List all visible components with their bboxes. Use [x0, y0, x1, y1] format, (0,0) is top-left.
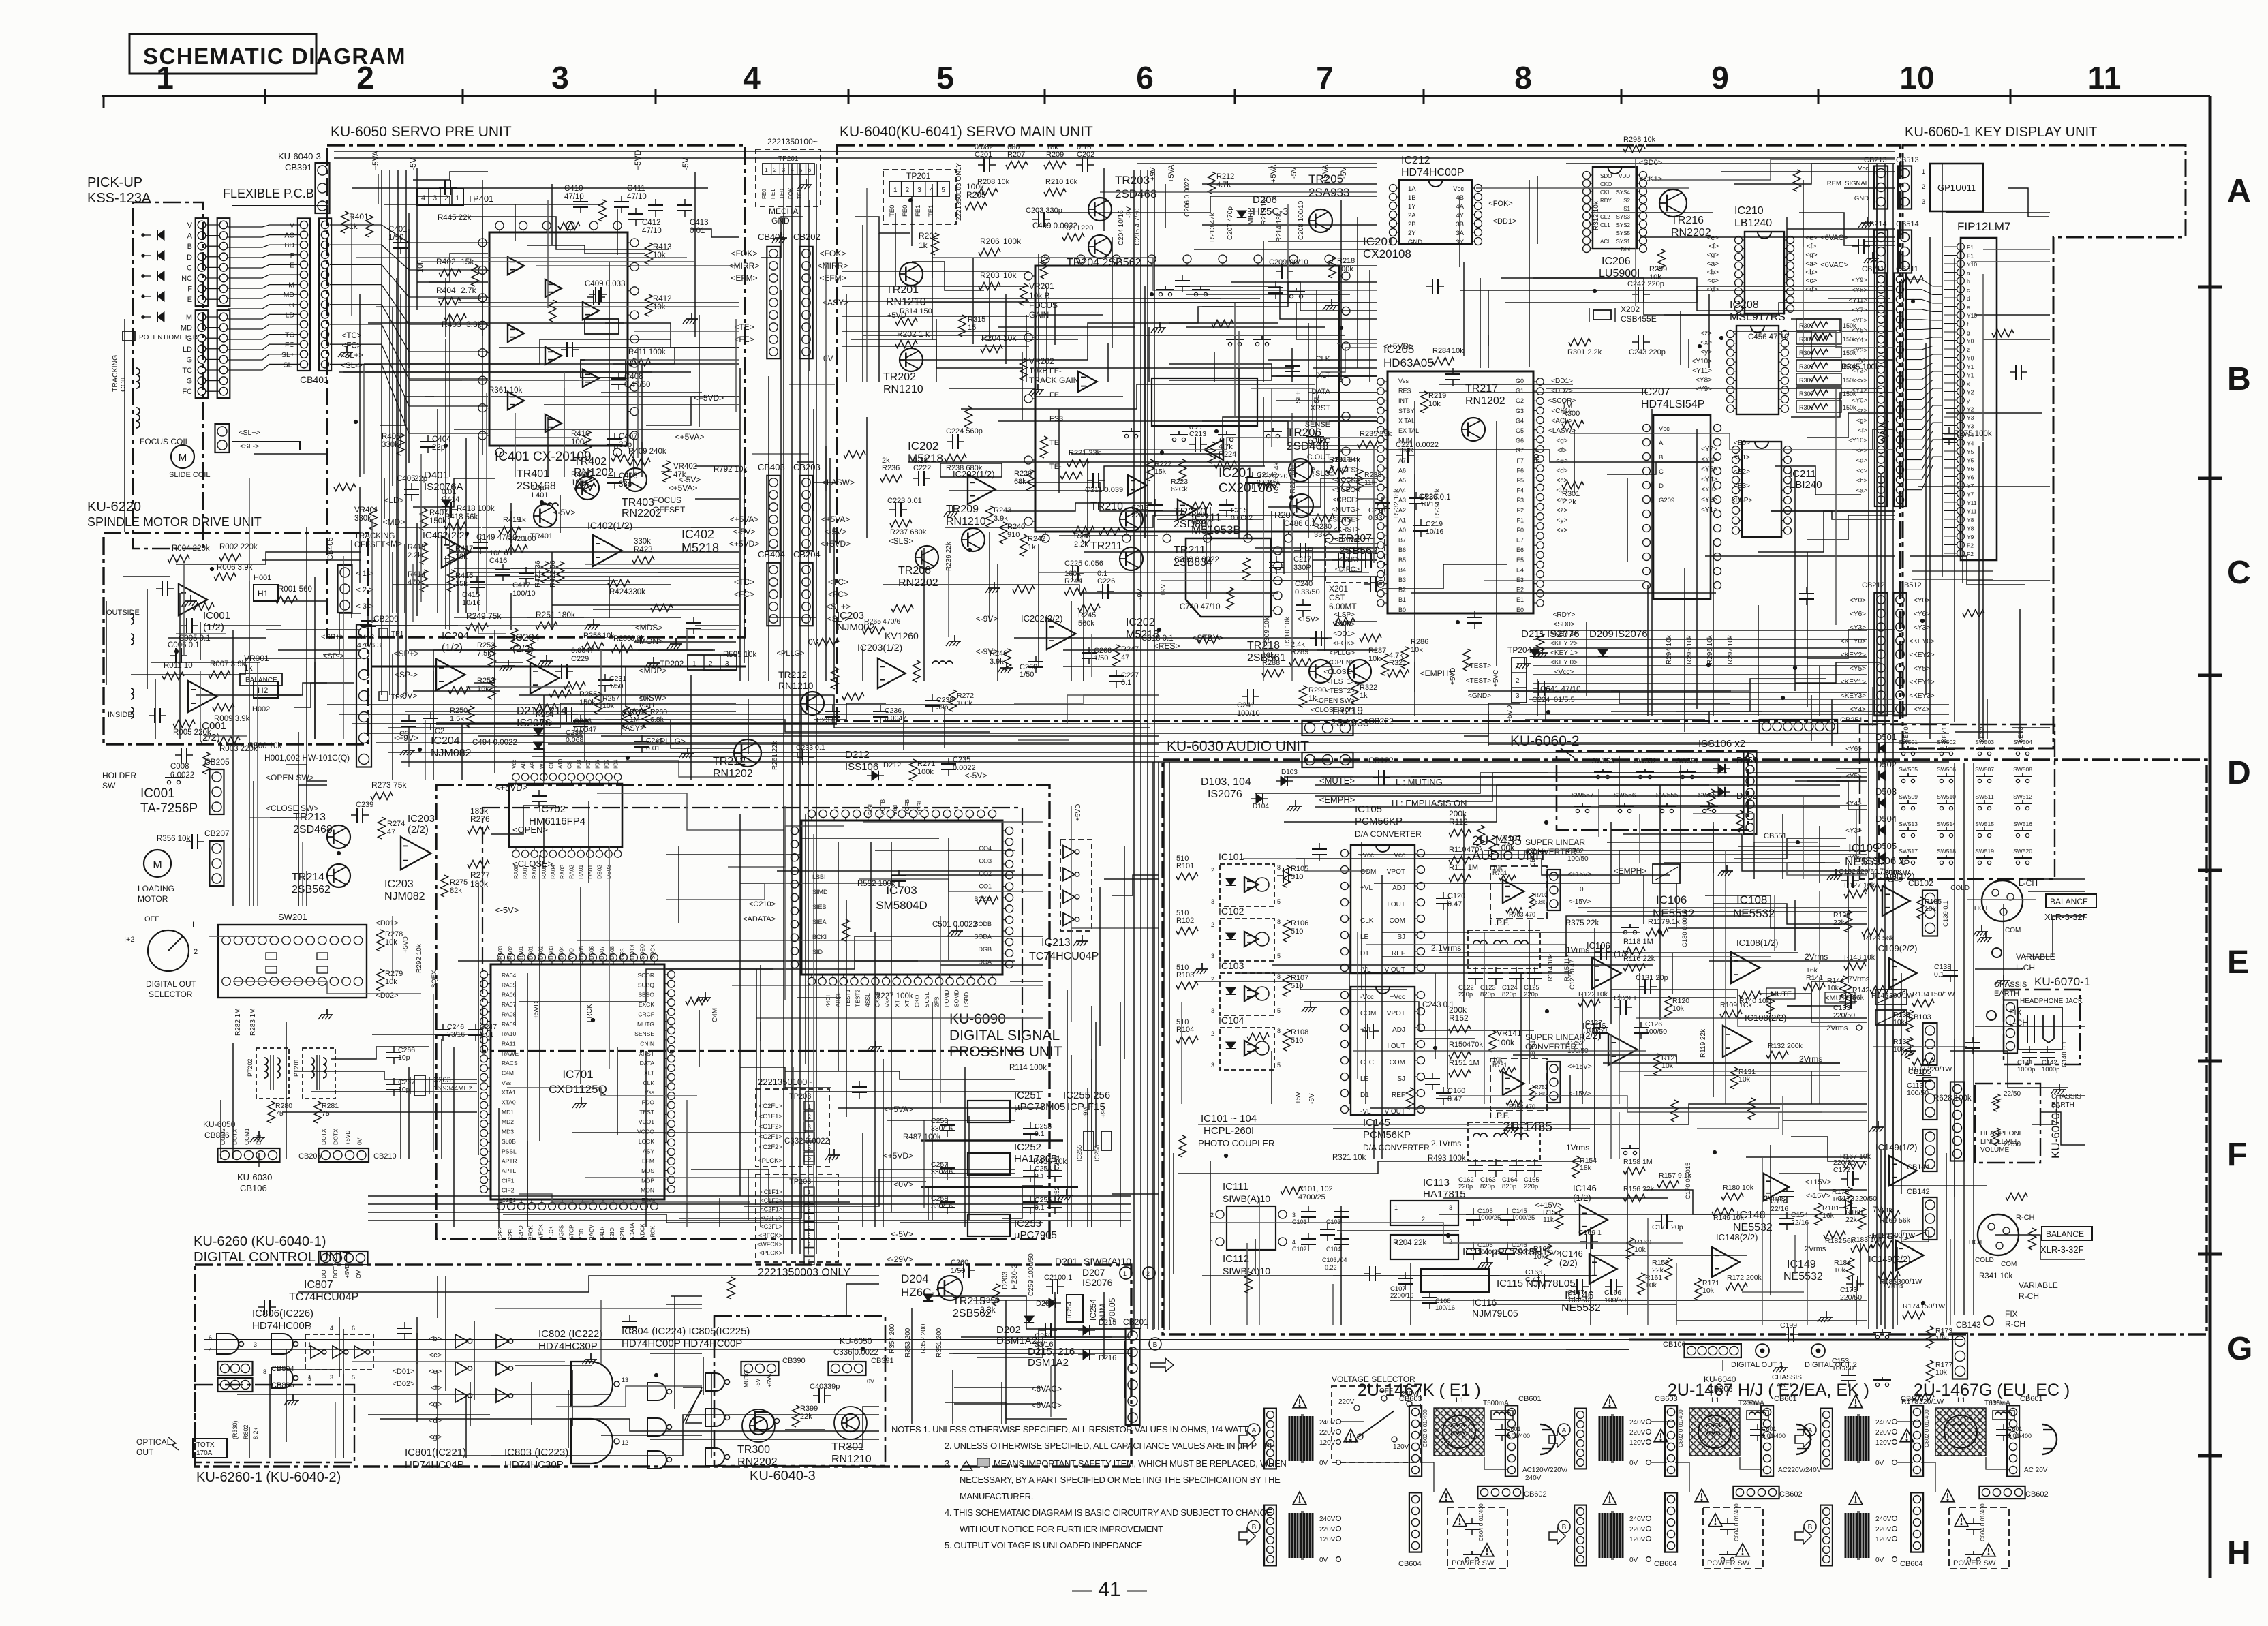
svg-text:G: G	[186, 356, 192, 364]
pin fip 18 Y7	[1957, 482, 1965, 489]
cap C169	[1586, 1234, 1587, 1249]
cap C008	[181, 748, 182, 763]
wire	[228, 245, 300, 247]
svg-text:R172 200k: R172 200k	[1727, 1274, 1762, 1282]
diode D552	[1718, 787, 1725, 797]
svg-text:SIWB(A)10: SIWB(A)10	[1223, 1193, 1270, 1204]
svg-text:EFM: EFM	[642, 1158, 654, 1165]
testpoint TP202	[688, 655, 737, 670]
wire	[249, 817, 307, 818]
svg-text:<b>: <b>	[1805, 269, 1817, 276]
svg-text:2FS: 2FS	[934, 996, 940, 1007]
svg-text:C260: C260	[951, 1259, 968, 1267]
svg-text:C139 0.1: C139 0.1	[1942, 900, 1950, 927]
svg-text:R308: R308	[1799, 404, 1814, 411]
transistor TR215	[938, 1276, 962, 1300]
svg-text:0V: 0V	[356, 1137, 363, 1145]
svg-text:<b>: <b>	[1707, 269, 1719, 276]
svg-text:R129 56k: R129 56k	[1863, 934, 1895, 942]
wire	[694, 172, 696, 337]
wire	[1533, 278, 1760, 315]
cap C413	[677, 204, 692, 206]
pin 207l	[1643, 425, 1651, 432]
svg-text:820p: 820p	[1502, 1183, 1516, 1191]
svg-text:L1: L1	[1456, 1396, 1464, 1405]
wire	[564, 388, 565, 477]
resistor R127	[1844, 891, 1866, 898]
connector CB603	[1665, 1405, 1677, 1476]
wire	[1607, 462, 1709, 474]
svg-text:C4M: C4M	[711, 1008, 719, 1022]
resistor R408	[584, 470, 592, 491]
svg-text:R287: R287	[1368, 647, 1386, 655]
cap C223	[895, 502, 896, 517]
wire	[206, 277, 219, 279]
transistor TR218	[1309, 660, 1332, 683]
svg-text:R752: R752	[1535, 1084, 1548, 1090]
wire	[1983, 339, 2050, 340]
pin sw201 t	[282, 936, 290, 945]
svg-text:KEY1: KEY1	[1941, 726, 1948, 742]
svg-text:-VL: -VL	[1360, 1108, 1371, 1116]
svg-text:NJM79L05: NJM79L05	[1472, 1308, 1518, 1319]
connector CB604	[1409, 1492, 1422, 1552]
connector CB209	[356, 625, 371, 767]
svg-text:R305: R305	[1799, 363, 1814, 370]
diode D104	[1256, 794, 1263, 803]
svg-text:KU-6040-3: KU-6040-3	[750, 1469, 816, 1484]
svg-text:F: F	[290, 251, 294, 260]
wire	[1100, 191, 1377, 193]
wire	[1268, 167, 1377, 168]
resistor R106 b	[1283, 920, 1291, 942]
svg-text:10: 10	[1899, 60, 1934, 95]
cap C219	[1413, 525, 1428, 526]
svg-text:FE0: FE0	[761, 189, 767, 199]
svg-text:C240: C240	[1295, 580, 1313, 588]
svg-text:<-15V>: <-15V>	[1569, 1090, 1591, 1098]
svg-text:R219: R219	[1428, 392, 1446, 400]
svg-text:R253: R253	[477, 677, 495, 685]
wire	[306, 871, 307, 906]
wire	[1018, 482, 1184, 511]
wire	[1546, 388, 1882, 389]
wire	[972, 258, 974, 344]
svg-text:<TC>: <TC>	[828, 577, 848, 587]
transformer winding A	[1289, 1416, 1291, 1461]
svg-text:R101: R101	[1176, 862, 1194, 870]
wire 6vac	[954, 1387, 1043, 1388]
wire	[249, 478, 250, 848]
svg-text:G3: G3	[1516, 408, 1524, 414]
svg-text:2U-1467G (EU, EC ): 2U-1467G (EU, EC )	[1914, 1381, 2070, 1400]
svg-text:B2: B2	[1398, 587, 1406, 594]
svg-text:CB604: CB604	[1900, 1560, 1923, 1568]
svg-text:G1: G1	[1516, 388, 1524, 395]
pin 702t	[605, 773, 612, 780]
svg-text:<EMPH>: <EMPH>	[1614, 866, 1647, 876]
svg-text:SW512: SW512	[2013, 793, 2032, 800]
relay mute a	[1875, 990, 1907, 1004]
resistor R142	[1845, 985, 1852, 1007]
wire	[298, 834, 299, 906]
wire	[352, 187, 708, 189]
svg-text:9: 9	[1711, 60, 1729, 95]
svg-text:ACL: ACL	[1600, 239, 1611, 245]
wire fip link	[1905, 431, 1942, 450]
svg-text:g: g	[1967, 329, 1970, 336]
svg-text:0.082: 0.082	[975, 143, 994, 151]
connector CB602	[1979, 1486, 2025, 1499]
diode pickup D1	[157, 230, 164, 240]
svg-text:IC146: IC146	[1573, 1183, 1597, 1193]
svg-text:SQCK: SQCK	[650, 944, 656, 960]
svg-text:CB209: CB209	[373, 614, 399, 624]
pin 207r	[1714, 467, 1721, 475]
wire	[989, 532, 990, 622]
wire	[1414, 474, 1415, 692]
svg-text:100k: 100k	[1064, 570, 1081, 578]
wire	[1263, 499, 1264, 681]
svg-text:<D02>: <D02>	[392, 1380, 414, 1388]
svg-text:IC256: IC256	[1094, 1145, 1101, 1161]
svg-text:FE: FE	[1049, 391, 1059, 399]
resistor R421	[542, 562, 549, 583]
unit KU-6040 SERVO MAIN UNIT	[837, 145, 1900, 721]
svg-text:TE: TE	[1049, 439, 1059, 447]
svg-text:TR203: TR203	[1115, 174, 1150, 187]
svg-text:4.7k: 4.7k	[1389, 651, 1403, 660]
svg-text:10k: 10k	[1672, 1004, 1685, 1013]
svg-text:A: A	[1659, 440, 1664, 447]
svg-text:NC: NC	[181, 275, 192, 283]
svg-text:SIMD: SIMD	[812, 889, 828, 895]
svg-text:G: G	[186, 335, 192, 343]
warning triangle	[1603, 1395, 1616, 1408]
svg-text:R423: R423	[634, 546, 653, 554]
connector CB213	[1874, 166, 1888, 209]
fuse	[1747, 1411, 1768, 1420]
resistor R269	[842, 693, 864, 701]
svg-text:<-15V>: <-15V>	[1806, 1192, 1830, 1200]
svg-text:150k: 150k	[579, 699, 596, 707]
wire	[866, 188, 868, 382]
svg-text:CKI: CKI	[1600, 189, 1609, 196]
svg-text:DB02: DB02	[538, 945, 545, 960]
svg-text:PT202: PT202	[247, 1058, 254, 1077]
svg-text:220p: 220p	[1524, 1183, 1538, 1191]
svg-text:CO1: CO1	[979, 883, 992, 890]
svg-text:47/10: 47/10	[642, 227, 662, 235]
pot VR141	[1489, 1030, 1497, 1052]
svg-text:2.2k: 2.2k	[408, 551, 422, 559]
tp pin	[804, 1101, 814, 1110]
svg-text:C2FL: C2FL	[508, 1227, 514, 1240]
circled B	[1248, 1520, 1260, 1533]
svg-text:IC807: IC807	[304, 1279, 333, 1291]
wire	[462, 380, 629, 381]
resistor R272	[913, 660, 921, 682]
svg-text:<e>: <e>	[1707, 234, 1719, 242]
svg-text:R273 75k: R273 75k	[371, 780, 407, 790]
svg-text:R117: R117	[1648, 918, 1665, 926]
wire	[1271, 388, 1272, 447]
svg-text:C169 1: C169 1	[1578, 1229, 1602, 1237]
wire fip link	[1905, 397, 1942, 410]
connector CB214	[1874, 230, 1888, 273]
cap C203	[1038, 212, 1039, 227]
wire	[1137, 163, 1377, 164]
pin 702b	[559, 850, 566, 857]
wire	[413, 690, 500, 692]
svg-text:2: 2	[1211, 867, 1214, 874]
svg-text:+VL: +VL	[1360, 1026, 1373, 1034]
testpoint block 2221350100	[756, 1089, 829, 1167]
connector CB390	[741, 1362, 779, 1375]
svg-text:RES: RES	[1398, 388, 1411, 395]
wire	[405, 711, 645, 712]
svg-text:<Y1>: <Y1>	[1701, 506, 1717, 514]
svg-text:IC806(IC226): IC806(IC226)	[252, 1308, 313, 1319]
svg-text:C203 330p: C203 330p	[1026, 206, 1062, 215]
svg-text:+5VD: +5VD	[343, 1264, 350, 1279]
svg-text:C199: C199	[1780, 1321, 1797, 1330]
wire	[1317, 622, 1377, 650]
wire	[206, 288, 219, 290]
connector CB106	[1685, 1344, 1741, 1357]
wire	[646, 397, 739, 425]
ic IC115	[1421, 1269, 1489, 1292]
pin 702b	[540, 850, 547, 857]
wire	[1982, 442, 1984, 739]
svg-text:100: 100	[523, 535, 536, 543]
tp pin	[804, 1122, 814, 1131]
wire	[206, 266, 219, 268]
wire	[228, 364, 300, 370]
svg-text:<KEY2>: <KEY2>	[1909, 651, 1934, 659]
resistor R187	[1871, 1241, 1893, 1248]
connector SL 2pin	[215, 424, 230, 452]
wire	[1038, 544, 1039, 668]
pin fip 47 e	[1957, 303, 1965, 310]
svg-text:C102: C102	[1292, 1246, 1307, 1253]
svg-text:C229: C229	[571, 655, 589, 663]
svg-text:R210 16k: R210 16k	[1045, 178, 1078, 186]
wire gates out	[785, 1429, 825, 1430]
svg-text:<KEY3>: <KEY3>	[1909, 692, 1934, 700]
svg-text:CB601: CB601	[1518, 1395, 1542, 1403]
svg-text:IS2076: IS2076	[1208, 788, 1242, 800]
svg-text:CB222: CB222	[1368, 716, 1394, 726]
cap C254	[1023, 1170, 1038, 1171]
svg-text:(1/2): (1/2)	[442, 642, 463, 654]
svg-text:10k: 10k	[385, 938, 397, 947]
wire	[228, 275, 300, 278]
tp pin	[804, 1152, 814, 1161]
svg-text:1Y: 1Y	[1408, 203, 1416, 211]
svg-text:R150: R150	[1449, 1041, 1467, 1049]
svg-text:3: 3	[1449, 1204, 1452, 1211]
wire	[416, 523, 418, 616]
svg-text:<D01>: <D01>	[392, 1368, 414, 1376]
cap C222	[918, 471, 919, 486]
svg-text:POSL: POSL	[916, 799, 923, 815]
resistor R104	[1176, 1037, 1198, 1044]
wire	[1876, 168, 1878, 316]
selector contacts	[1354, 1405, 1360, 1411]
svg-text:2Vrms: 2Vrms	[1799, 1054, 1822, 1064]
pin sw201 t	[354, 936, 362, 945]
wire	[948, 568, 949, 637]
cap C213	[1195, 437, 1196, 452]
svg-text:TC: TC	[285, 331, 294, 339]
svg-text:<FC>: <FC>	[342, 342, 362, 350]
wire	[1083, 589, 1084, 681]
svg-text:R234 22k: R234 22k	[1434, 488, 1441, 518]
svg-text:47/10: 47/10	[627, 193, 647, 201]
wire	[998, 420, 1377, 422]
svg-text:R005 220k: R005 220k	[173, 728, 211, 737]
svg-text:DOTX: DOTX	[232, 1129, 239, 1145]
connector pickup C	[196, 310, 209, 398]
resistor R419	[499, 527, 521, 534]
power sw box	[1447, 1507, 1507, 1569]
svg-text:11: 11	[2088, 60, 2121, 95]
pot VR202	[1020, 358, 1028, 380]
svg-text:TR219: TR219	[1330, 705, 1363, 717]
wire	[1975, 314, 2050, 316]
svg-text:R258: R258	[613, 634, 631, 643]
cap C601	[1495, 1429, 1510, 1430]
op-amp internal	[508, 324, 524, 342]
svg-text:C2IO: C2IO	[609, 1227, 615, 1240]
op-amp internal	[545, 414, 562, 432]
svg-text:R118 1M: R118 1M	[1623, 938, 1653, 946]
svg-text:<RFCK>: <RFCK>	[758, 1232, 782, 1239]
svg-text:IC803 (IC223): IC803 (IC223)	[504, 1447, 568, 1458]
svg-text:R207: R207	[1007, 151, 1025, 159]
svg-text:E4: E4	[1516, 566, 1524, 573]
svg-text:F5: F5	[1516, 477, 1524, 484]
pin ic211	[1274, 592, 1282, 600]
svg-text:<+5VD>: <+5VD>	[694, 393, 724, 403]
diode D209	[1598, 649, 1608, 656]
resistor R246	[1004, 649, 1011, 671]
resistor R413	[645, 243, 653, 264]
transistor TR214	[327, 864, 350, 887]
svg-text:Y11: Y11	[1967, 500, 1977, 506]
wire	[176, 633, 226, 634]
svg-text:IC206: IC206	[1602, 256, 1631, 267]
transformer winding A	[1845, 1416, 1847, 1461]
svg-text:INT: INT	[1398, 397, 1409, 404]
inverter 213	[1063, 891, 1075, 904]
svg-text:Y3: Y3	[1967, 423, 1974, 430]
wire	[1967, 580, 2050, 581]
svg-text:ADATA: ADATA	[630, 1223, 636, 1240]
resistor R402	[439, 269, 461, 277]
svg-text:560k: 560k	[1078, 619, 1094, 628]
svg-text:1.5k: 1.5k	[450, 715, 464, 723]
pin fip 24 Y5	[1957, 456, 1965, 463]
wire	[1865, 241, 1895, 242]
switch SW555	[1660, 809, 1664, 812]
pin 207l	[1643, 453, 1651, 461]
wire	[634, 331, 739, 332]
svg-text:CB122: CB122	[1368, 756, 1394, 765]
svg-text:<RDY>: <RDY>	[1553, 611, 1576, 619]
svg-text:2.7k: 2.7k	[461, 286, 477, 295]
svg-text:CB105: CB105	[1908, 1068, 1931, 1076]
svg-text:< 1 >: < 1 >	[356, 570, 373, 578]
svg-text:0V: 0V	[1875, 1556, 1884, 1564]
svg-text:CLK: CLK	[643, 1079, 654, 1086]
svg-text:G: G	[289, 301, 294, 309]
wire	[998, 326, 1135, 328]
svg-text:1000/25: 1000/25	[1512, 1248, 1535, 1256]
ic IC102	[1220, 919, 1274, 961]
pin 207l	[1643, 582, 1651, 589]
svg-text:BALANCE: BALANCE	[2046, 1229, 2084, 1239]
svg-text:IC252: IC252	[1014, 1141, 1041, 1153]
svg-text:SM5804D: SM5804D	[876, 899, 928, 912]
svg-text:IC105: IC105	[1355, 803, 1382, 815]
svg-text:2221350003 ONLY: 2221350003 ONLY	[758, 1267, 850, 1278]
power sw box	[1703, 1507, 1763, 1569]
pin fip 51 a	[1957, 269, 1965, 276]
wire fip link	[1905, 290, 1942, 295]
svg-text:POWER SW: POWER SW	[1953, 1559, 1996, 1567]
svg-text:CB512: CB512	[1899, 581, 1922, 589]
ruler tick	[655, 89, 657, 104]
svg-text:BCKI: BCKI	[812, 934, 827, 940]
svg-text:KU-6050: KU-6050	[203, 1120, 236, 1129]
op-amp internal	[583, 369, 599, 387]
wire	[1202, 224, 1377, 226]
diode D204 zener	[923, 1294, 933, 1301]
testpoint TP201 box	[883, 170, 956, 224]
svg-text:510: 510	[1176, 855, 1189, 863]
transistor TR211	[1120, 547, 1143, 570]
ic IC114	[1390, 1235, 1458, 1259]
wire	[625, 666, 626, 707]
connector CB601	[2007, 1405, 2019, 1476]
svg-text:<KEY1>: <KEY1>	[1909, 679, 1934, 686]
svg-text:UGFS: UGFS	[558, 1225, 564, 1240]
svg-text:VDD: VDD	[1619, 173, 1630, 179]
wires	[1897, 1421, 1920, 1422]
svg-text:CKO: CKO	[1600, 181, 1612, 187]
svg-text:LINE LEVEL: LINE LEVEL	[1980, 1138, 2019, 1146]
svg-text:D202: D202	[996, 1324, 1021, 1336]
svg-text:RA08: RA08	[502, 1011, 517, 1017]
resistor R321	[1388, 670, 1409, 677]
resistor R300	[1562, 420, 1584, 428]
connector CB144	[1923, 1129, 1937, 1171]
svg-text:TR212: TR212	[778, 669, 807, 680]
svg-text:INSIDE: INSIDE	[108, 711, 133, 719]
wire	[302, 842, 303, 906]
svg-text:CIF1: CIF1	[502, 1177, 515, 1184]
circled A	[1804, 1424, 1816, 1436]
resistor R172	[1726, 1283, 1747, 1291]
svg-text:IC402: IC402	[681, 527, 714, 541]
diode D213	[534, 728, 543, 735]
nand IC805d	[705, 1448, 724, 1466]
svg-text:4. THIS SCHEMATAIC DIAGRAM IS: 4. THIS SCHEMATAIC DIAGRAM IS BASIC CIRC…	[945, 1507, 1272, 1518]
wire	[510, 593, 512, 630]
wire	[1026, 315, 1027, 382]
